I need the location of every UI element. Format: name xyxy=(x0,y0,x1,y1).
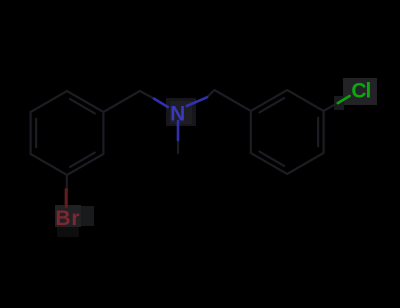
svg-text:Br: Br xyxy=(55,207,80,230)
svg-text:Cl: Cl xyxy=(351,80,370,103)
svg-text:N: N xyxy=(170,102,185,125)
